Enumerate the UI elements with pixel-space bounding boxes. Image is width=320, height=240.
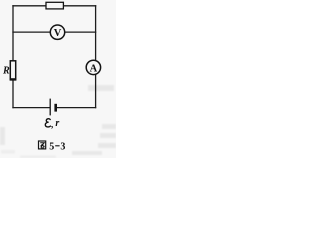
wire: battery to bottom right <box>57 107 95 109</box>
svg-text:R: R <box>2 66 10 77</box>
wire: left vertical <box>12 6 14 108</box>
wire: right vertical <box>95 6 97 108</box>
svg-text:,: , <box>51 119 53 129</box>
svg-text:r: r <box>55 118 59 129</box>
wire: top horizontal <box>13 5 96 7</box>
wire: bottom left to battery <box>13 107 50 109</box>
battery cell: long plate (+) <box>49 99 51 116</box>
battery cell: short thick plate (-) <box>54 104 57 112</box>
paper background <box>0 0 116 158</box>
voltmeter U-V <box>50 25 64 39</box>
svg-text:5: 5 <box>49 141 54 152</box>
resistor R2 (top slide/box resistor) <box>46 2 63 9</box>
caption: hanzi TU (drawn) <box>39 141 46 149</box>
svg-text:V: V <box>54 28 62 39</box>
label EMF script-E <box>45 119 50 127</box>
svg-text:A: A <box>90 63 98 74</box>
ammeter U-A <box>86 60 100 74</box>
resistor R (left) <box>10 61 15 80</box>
wire: voltmeter branch <box>13 31 96 33</box>
caption: dash <box>55 145 59 147</box>
resistor R bottom thick edge <box>10 78 16 80</box>
svg-text:3: 3 <box>60 141 65 152</box>
